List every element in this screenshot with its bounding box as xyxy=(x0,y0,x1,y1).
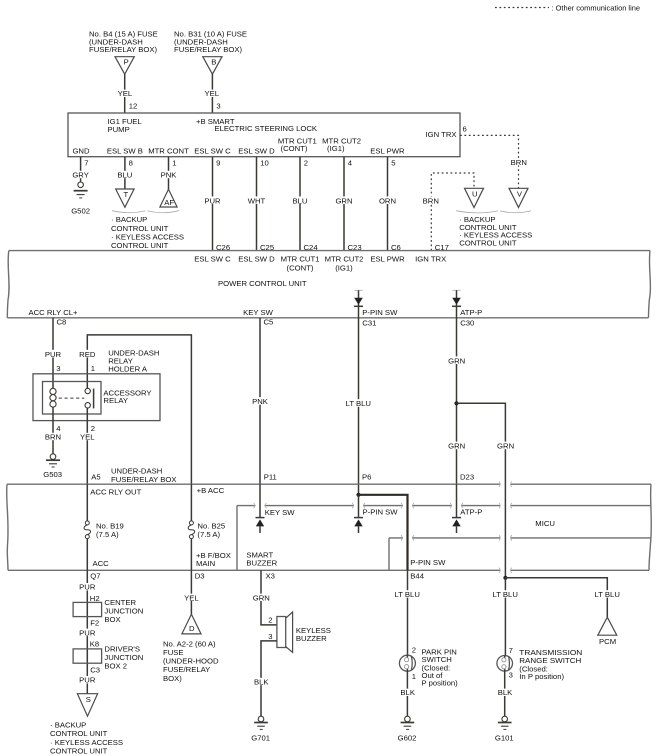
svg-text:IGN TRX: IGN TRX xyxy=(415,255,446,264)
svg-text:MTR CONT: MTR CONT xyxy=(148,147,189,156)
svg-text:PUMP: PUMP xyxy=(108,125,130,134)
svg-text:(IG1): (IG1) xyxy=(335,264,353,273)
svg-text:P11: P11 xyxy=(264,473,277,482)
svg-text:1: 1 xyxy=(412,672,416,681)
svg-text:X3: X3 xyxy=(266,571,275,580)
svg-text:P-PIN SW: P-PIN SW xyxy=(363,508,399,517)
svg-text:12: 12 xyxy=(129,102,138,111)
svg-text:PUR: PUR xyxy=(204,196,221,205)
svg-text:ESL SW D: ESL SW D xyxy=(238,147,275,156)
svg-text:10: 10 xyxy=(260,158,269,167)
svg-text:1: 1 xyxy=(91,364,95,373)
svg-text:F2: F2 xyxy=(90,619,99,628)
wire ESL SW D pin 10 WHT xyxy=(247,157,269,251)
ground G101 xyxy=(495,716,514,742)
svg-text:G502: G502 xyxy=(71,207,90,216)
pin C23 MTR CUT2 (IG1) xyxy=(325,243,364,273)
wire MTR CUT1 pin 2 BLU xyxy=(291,157,309,251)
pin C25 ESL SW D xyxy=(238,243,275,264)
wire YEL from fuse B to ESL pin 3 xyxy=(203,74,222,113)
svg-text:3: 3 xyxy=(268,632,272,641)
relay: ACCESSORY RELAY xyxy=(43,382,152,415)
wire BLK transmission range switch to ground xyxy=(496,671,515,716)
svg-text:FUSE/RELAY BOX): FUSE/RELAY BOX) xyxy=(89,45,158,54)
note: backup / keyless access control unit (left) xyxy=(111,215,184,250)
svg-text:CONTROL UNIT: CONTROL UNIT xyxy=(50,746,108,755)
svg-text:GND: GND xyxy=(72,147,90,156)
svg-text:K8: K8 xyxy=(90,640,99,649)
svg-text:2: 2 xyxy=(268,616,272,625)
svg-text:P position): P position) xyxy=(422,678,459,687)
svg-text:IGN TRX: IGN TRX xyxy=(425,130,456,139)
unit U1: ELECTRIC STEERING LOCK box xyxy=(68,113,460,157)
wire GRN branch to pass-through xyxy=(457,403,516,578)
svg-text:PNK: PNK xyxy=(161,170,178,179)
svg-text:BRN: BRN xyxy=(423,196,439,205)
svg-text:GRN: GRN xyxy=(335,196,352,205)
box: UNDER-DASH RELAY HOLDER A xyxy=(33,348,160,420)
svg-text:ELECTRIC STEERING LOCK: ELECTRIC STEERING LOCK xyxy=(215,124,318,133)
connector AF xyxy=(160,189,177,207)
wire P-PIN SW LT BLU from C31 to P6 xyxy=(345,318,372,495)
svg-text:BUZZER: BUZZER xyxy=(296,634,327,643)
svg-text:C26: C26 xyxy=(216,243,230,252)
svg-text:ATP-P: ATP-P xyxy=(460,508,482,517)
connector T (to backup/keyless units) xyxy=(116,189,134,207)
svg-text:B: B xyxy=(211,57,216,66)
svg-text:GRN: GRN xyxy=(448,442,465,451)
svg-text:P-PIN SW: P-PIN SW xyxy=(362,308,398,317)
svg-text:(CONT): (CONT) xyxy=(281,144,308,153)
wire YEL D3 to fuse A2-2 xyxy=(182,570,201,614)
diode P-PIN SW in MICU xyxy=(354,495,398,533)
svg-text:C3: C3 xyxy=(90,665,100,674)
wire YEL relay pin 2 to fuse box A5 xyxy=(78,408,101,484)
svg-text:POWER CONTROL UNIT: POWER CONTROL UNIT xyxy=(218,279,307,288)
svg-text:ESL PWR: ESL PWR xyxy=(370,255,405,264)
svg-text:ESL PWR: ESL PWR xyxy=(370,147,405,156)
relay contact xyxy=(59,388,94,408)
svg-text:G503: G503 xyxy=(43,470,62,479)
junction P6 and branch wire to B44 xyxy=(356,493,407,571)
note: backup / keyless access control unit (right) xyxy=(459,215,532,247)
svg-text:D: D xyxy=(189,624,195,633)
pin C17 IGN TRX xyxy=(415,243,449,264)
svg-text:ATP-P: ATP-P xyxy=(460,308,482,317)
svg-text:BLK: BLK xyxy=(400,688,415,697)
svg-text:CONTROL UNIT: CONTROL UNIT xyxy=(459,238,517,247)
wire LT BLU branch to PCM xyxy=(505,578,620,617)
svg-text:In P position): In P position) xyxy=(519,672,564,681)
wire MTR CUT2 pin 4 GRN xyxy=(335,157,354,251)
svg-text:(CONT): (CONT) xyxy=(287,264,314,273)
unit U2: POWER CONTROL UNIT band xyxy=(7,251,650,318)
svg-text:1: 1 xyxy=(172,158,176,167)
pin C6 ESL PWR xyxy=(370,243,405,264)
svg-text:C8: C8 xyxy=(57,317,67,326)
svg-text:6: 6 xyxy=(463,125,467,134)
svg-text:KEY SW: KEY SW xyxy=(265,508,296,517)
wire ESL SW B pin 8 BLU xyxy=(116,157,134,189)
svg-text:MTR CUT1: MTR CUT1 xyxy=(281,255,320,264)
svg-text:7: 7 xyxy=(84,158,88,167)
svg-text:BOX 2: BOX 2 xyxy=(104,662,127,671)
svg-text:YEL: YEL xyxy=(205,89,220,98)
pin C26 ESL SW C xyxy=(194,243,231,264)
svg-text:T: T xyxy=(124,190,129,199)
wire ESL PWR pin 5 ORN xyxy=(378,157,397,251)
svg-text:BUZZER: BUZZER xyxy=(246,559,277,568)
wire RED relay pin 1 up-over to fuse box Q9 xyxy=(78,335,192,484)
svg-text:WHT: WHT xyxy=(248,196,266,205)
svg-text:HOLDER A: HOLDER A xyxy=(108,364,148,373)
smart buzzer box edge xyxy=(237,506,651,571)
svg-text:BLU: BLU xyxy=(117,170,132,179)
pin C8 ACC RLY CL+ xyxy=(28,308,78,326)
diode KEY SW in smart buzzer xyxy=(256,484,296,533)
svg-text:H2: H2 xyxy=(90,594,100,603)
svg-text:ORN: ORN xyxy=(379,196,396,205)
diode ATP-P in MICU xyxy=(452,484,482,533)
svg-text:PUR: PUR xyxy=(45,350,62,359)
svg-text:C5: C5 xyxy=(264,317,274,326)
svg-text:S: S xyxy=(86,695,91,704)
svg-text:V: V xyxy=(517,190,523,199)
svg-text:+B ACC: +B ACC xyxy=(197,486,225,495)
smart buzzer internals xyxy=(246,551,277,568)
junction and wire LT BLU to transmission range switch xyxy=(492,576,519,656)
svg-text:G701: G701 xyxy=(251,734,270,743)
svg-text:PUR: PUR xyxy=(79,676,96,685)
svg-text:ESL SW C: ESL SW C xyxy=(194,147,231,156)
wire GND pin 7 GRY xyxy=(71,157,90,182)
svg-text:P: P xyxy=(124,57,129,66)
wire BLK park pin switch to ground xyxy=(398,671,417,716)
fuse No. B31 (10 A) connector B xyxy=(174,29,247,74)
svg-text:BLU: BLU xyxy=(293,196,308,205)
pin B44 P-PIN SW out of MICU xyxy=(410,558,446,580)
box: CENTER JUNCTION BOX pins H2/F2 xyxy=(73,594,143,628)
svg-text:GRN: GRN xyxy=(497,442,514,451)
svg-text:ESL SW C: ESL SW C xyxy=(194,255,231,264)
svg-text:FUSE/RELAY BOX: FUSE/RELAY BOX xyxy=(111,475,177,484)
svg-text:RELAY: RELAY xyxy=(103,396,128,405)
svg-text:: Other communication line: : Other communication line xyxy=(552,4,641,13)
svg-text:YEL: YEL xyxy=(184,593,199,602)
connector S xyxy=(77,694,97,717)
svg-text:U: U xyxy=(472,190,478,199)
svg-text:A5: A5 xyxy=(91,473,100,482)
box: DRIVER'S JUNCTION BOX 2 pins K8/C3 xyxy=(73,640,143,675)
svg-text:(7.5 A): (7.5 A) xyxy=(197,530,220,539)
svg-text:ACC RLY OUT: ACC RLY OUT xyxy=(90,487,141,496)
svg-text:PUR: PUR xyxy=(79,628,96,637)
svg-text:LT BLU: LT BLU xyxy=(493,590,518,599)
wire LT BLU B44 to park pin switch xyxy=(394,570,421,655)
svg-text:PUR: PUR xyxy=(79,583,96,592)
svg-text:BRN: BRN xyxy=(45,433,61,442)
brace under U and V xyxy=(456,211,531,213)
svg-text:5: 5 xyxy=(391,158,395,167)
wire GRN X3 to keyless buzzer pin 2 xyxy=(252,570,277,625)
svg-text:BOX): BOX) xyxy=(163,674,182,683)
svg-text:LT BLU: LT BLU xyxy=(346,399,371,408)
svg-text:ESL SW D: ESL SW D xyxy=(238,255,275,264)
svg-text:D3: D3 xyxy=(195,571,205,580)
svg-text:3: 3 xyxy=(56,364,60,373)
svg-text:C25: C25 xyxy=(260,243,274,252)
wire BLK buzzer pin 3 to ground xyxy=(252,632,277,716)
fuse No. B4 (15 A) connector P xyxy=(89,29,158,74)
connector V xyxy=(509,188,528,207)
wire MTR CONT pin 1 PNK xyxy=(160,157,178,190)
svg-text:3: 3 xyxy=(509,671,513,680)
svg-text:B44: B44 xyxy=(410,571,424,580)
svg-text:YEL: YEL xyxy=(80,433,95,442)
MICU inner edge xyxy=(389,538,651,570)
svg-text:2: 2 xyxy=(304,158,308,167)
svg-text:ESL SW B: ESL SW B xyxy=(107,147,143,156)
dotted wire IGN TRX pin 6 BRN to connector V xyxy=(460,125,529,189)
svg-text:7: 7 xyxy=(509,646,513,655)
pin C5 KEY SW xyxy=(243,308,274,326)
svg-text:FUSE/RELAY BOX): FUSE/RELAY BOX) xyxy=(174,45,243,54)
wire ATP-P GRN from C30 with branch xyxy=(447,318,474,484)
svg-text:D23: D23 xyxy=(460,473,474,482)
connector U xyxy=(465,188,484,207)
svg-text:GRN: GRN xyxy=(448,356,465,365)
svg-text:P-PIN SW: P-PIN SW xyxy=(410,558,446,567)
relay coil xyxy=(50,388,56,407)
internal diode ATP-P out xyxy=(452,290,482,327)
svg-text:BOX: BOX xyxy=(104,615,120,624)
svg-text:C6: C6 xyxy=(391,243,401,252)
ground G701 xyxy=(251,716,270,742)
wire KEY SW PNK from C5 to P11 xyxy=(251,318,277,484)
svg-text:8: 8 xyxy=(129,158,133,167)
svg-text:(IG1): (IG1) xyxy=(327,144,345,153)
svg-text:C30: C30 xyxy=(460,318,474,327)
connector PCM xyxy=(598,617,617,646)
svg-text:LT BLU: LT BLU xyxy=(395,590,420,599)
svg-text:PCM: PCM xyxy=(599,637,616,646)
svg-text:AF: AF xyxy=(164,198,174,207)
svg-text:BRN: BRN xyxy=(511,158,527,167)
svg-text:C31: C31 xyxy=(362,318,376,327)
svg-text:KEY SW: KEY SW xyxy=(243,308,274,317)
svg-text:GRY: GRY xyxy=(72,170,89,179)
svg-text:GRN: GRN xyxy=(253,593,270,602)
svg-text:CONTROL UNIT: CONTROL UNIT xyxy=(111,241,169,250)
ground G602 xyxy=(398,716,417,742)
pin C24 MTR CUT1 (CONT) xyxy=(281,243,320,273)
svg-text:C24: C24 xyxy=(304,243,319,252)
svg-text:(7.5 A): (7.5 A) xyxy=(96,530,119,539)
svg-text:RANGE SWITCH: RANGE SWITCH xyxy=(519,656,581,665)
svg-text:G602: G602 xyxy=(398,734,417,743)
svg-text:C17: C17 xyxy=(435,243,449,252)
dotted wire IGN TRX C17 BRN to connector U xyxy=(422,173,475,251)
fuse No. B19 (7.5 A) xyxy=(84,484,124,570)
internal diode P-PIN SW out xyxy=(354,290,398,327)
svg-text:9: 9 xyxy=(216,158,220,167)
svg-text:YEL: YEL xyxy=(118,89,133,98)
wire PUR Q7 to junction boxes and connector S xyxy=(78,570,97,693)
wire YEL from fuse P to ESL pin 12 xyxy=(116,74,138,113)
svg-text:C23: C23 xyxy=(348,243,362,252)
svg-text:BLK: BLK xyxy=(254,677,269,686)
svg-text:MTR CUT2: MTR CUT2 xyxy=(325,255,364,264)
svg-text:P6: P6 xyxy=(362,473,371,482)
pin A5 / ACC RLY OUT xyxy=(90,487,141,496)
svg-text:BLK: BLK xyxy=(498,688,513,697)
ground G502 xyxy=(71,182,90,216)
svg-text:Q7: Q7 xyxy=(90,571,100,580)
brace under T and AF xyxy=(112,211,179,213)
svg-text:LT BLU: LT BLU xyxy=(595,590,620,599)
speaker: KEYLESS BUZZER xyxy=(277,612,331,652)
wire ACC RLY CL+ PUR to relay coil pin 3 xyxy=(44,318,63,389)
pin Q9 / +B ACC xyxy=(197,486,225,495)
svg-text:RED: RED xyxy=(79,350,96,359)
switch: PARK PIN SWITCH xyxy=(399,648,458,688)
wire ESL SW C pin 9 PUR xyxy=(203,157,222,251)
svg-text:ACC RLY CL+: ACC RLY CL+ xyxy=(28,308,78,317)
svg-text:MICU: MICU xyxy=(535,519,555,528)
wire BRN relay pin 4 to ground xyxy=(44,407,63,453)
svg-text:MAIN: MAIN xyxy=(196,559,215,568)
fuse No. B25 (7.5 A) xyxy=(188,484,231,570)
fuse No. A2-2 (60 A) connector D xyxy=(163,614,219,683)
svg-text:3: 3 xyxy=(216,102,220,111)
unit U3: UNDER-DASH FUSE/RELAY BOX / SMART BUZZER / MICU band xyxy=(7,466,652,570)
break marks on band edges xyxy=(254,482,512,574)
pins Q7 D3 X3 below band xyxy=(90,571,100,580)
svg-text:4: 4 xyxy=(348,158,353,167)
svg-text:PNK: PNK xyxy=(252,397,269,406)
svg-text:2: 2 xyxy=(412,645,416,654)
svg-text:G101: G101 xyxy=(495,734,514,743)
svg-text:ACC: ACC xyxy=(93,559,110,568)
note: backup / keyless access control unit (bottom) xyxy=(50,721,123,756)
ground G503 xyxy=(43,454,62,479)
legend: other communication line xyxy=(495,4,640,13)
switch: TRANSMISSION RANGE SWITCH xyxy=(497,648,582,681)
